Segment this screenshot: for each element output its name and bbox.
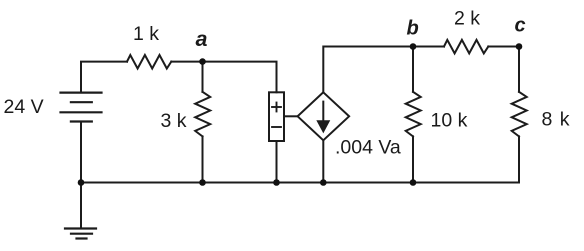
svg-text:10 k: 10 k bbox=[431, 110, 468, 132]
resistor R3 2 k (zigzag) bbox=[444, 40, 488, 54]
node c junction dot bbox=[516, 43, 523, 50]
junction dot: 10k-rail bbox=[410, 179, 417, 186]
wire: 8k bottom to rail corner bbox=[518, 136, 520, 182]
svg-text:b: b bbox=[407, 18, 419, 40]
junction dot: battery-rail bbox=[78, 179, 85, 186]
junction dot: box-rail bbox=[273, 179, 280, 186]
arrow of dependent current source bbox=[318, 101, 329, 132]
node a junction dot bbox=[199, 58, 206, 65]
wire: ground stem bbox=[80, 183, 82, 229]
junction dot: 3k-rail bbox=[199, 179, 206, 186]
wire: 2k to node c bbox=[488, 46, 519, 48]
svg-text:2 k: 2 k bbox=[454, 8, 480, 30]
wire: battery top to 1k resistor bbox=[81, 62, 127, 93]
svg-text:c: c bbox=[515, 15, 526, 37]
dependent current source U1 (diamond) bbox=[298, 92, 350, 140]
svg-text:1 k: 1 k bbox=[133, 23, 159, 45]
plus sign inside box bbox=[271, 102, 282, 113]
minus sign inside box bbox=[271, 126, 282, 128]
resistor R4 10 k (vertical zigzag) bbox=[406, 92, 421, 137]
voltage source V1 24 V (battery plates) bbox=[61, 93, 102, 122]
resistor R1 1 k (zigzag) bbox=[127, 55, 171, 69]
wire: node b to 2k bbox=[413, 46, 444, 48]
junction dot: diamond-rail bbox=[320, 179, 327, 186]
svg-text:.004 Va: .004 Va bbox=[335, 137, 401, 159]
wire: node a down to 3k bbox=[202, 62, 204, 92]
wire: box bottom to rail bbox=[276, 141, 278, 183]
wire: 1k to node a to box corner bbox=[171, 62, 276, 93]
wire: battery bottom down to bottom rail bbox=[80, 122, 82, 183]
svg-text:8 k: 8 k bbox=[542, 109, 571, 131]
wire: box right to diamond left vertex bbox=[284, 115, 298, 117]
dependent source box (+ -) bbox=[269, 92, 284, 141]
svg-text:3 k: 3 k bbox=[161, 110, 187, 132]
wire: diamond top up and across to node b bbox=[323, 47, 413, 93]
resistor R5 8 k (vertical zigzag) bbox=[512, 92, 527, 137]
ground bbox=[65, 229, 96, 239]
wire: 10k bottom to rail bbox=[412, 136, 414, 182]
wire: node c down to 8k bbox=[518, 47, 520, 92]
wire: 3k bottom to rail bbox=[202, 136, 204, 182]
wire: node b down to 10k bbox=[412, 47, 414, 92]
svg-text:a: a bbox=[196, 27, 208, 51]
wire: bottom rail bbox=[81, 182, 519, 184]
node b junction dot bbox=[410, 43, 417, 50]
svg-text:24 V: 24 V bbox=[4, 96, 44, 118]
resistor R2 3 k (vertical zigzag) bbox=[195, 92, 210, 137]
wire: diamond bottom to rail bbox=[322, 140, 324, 182]
